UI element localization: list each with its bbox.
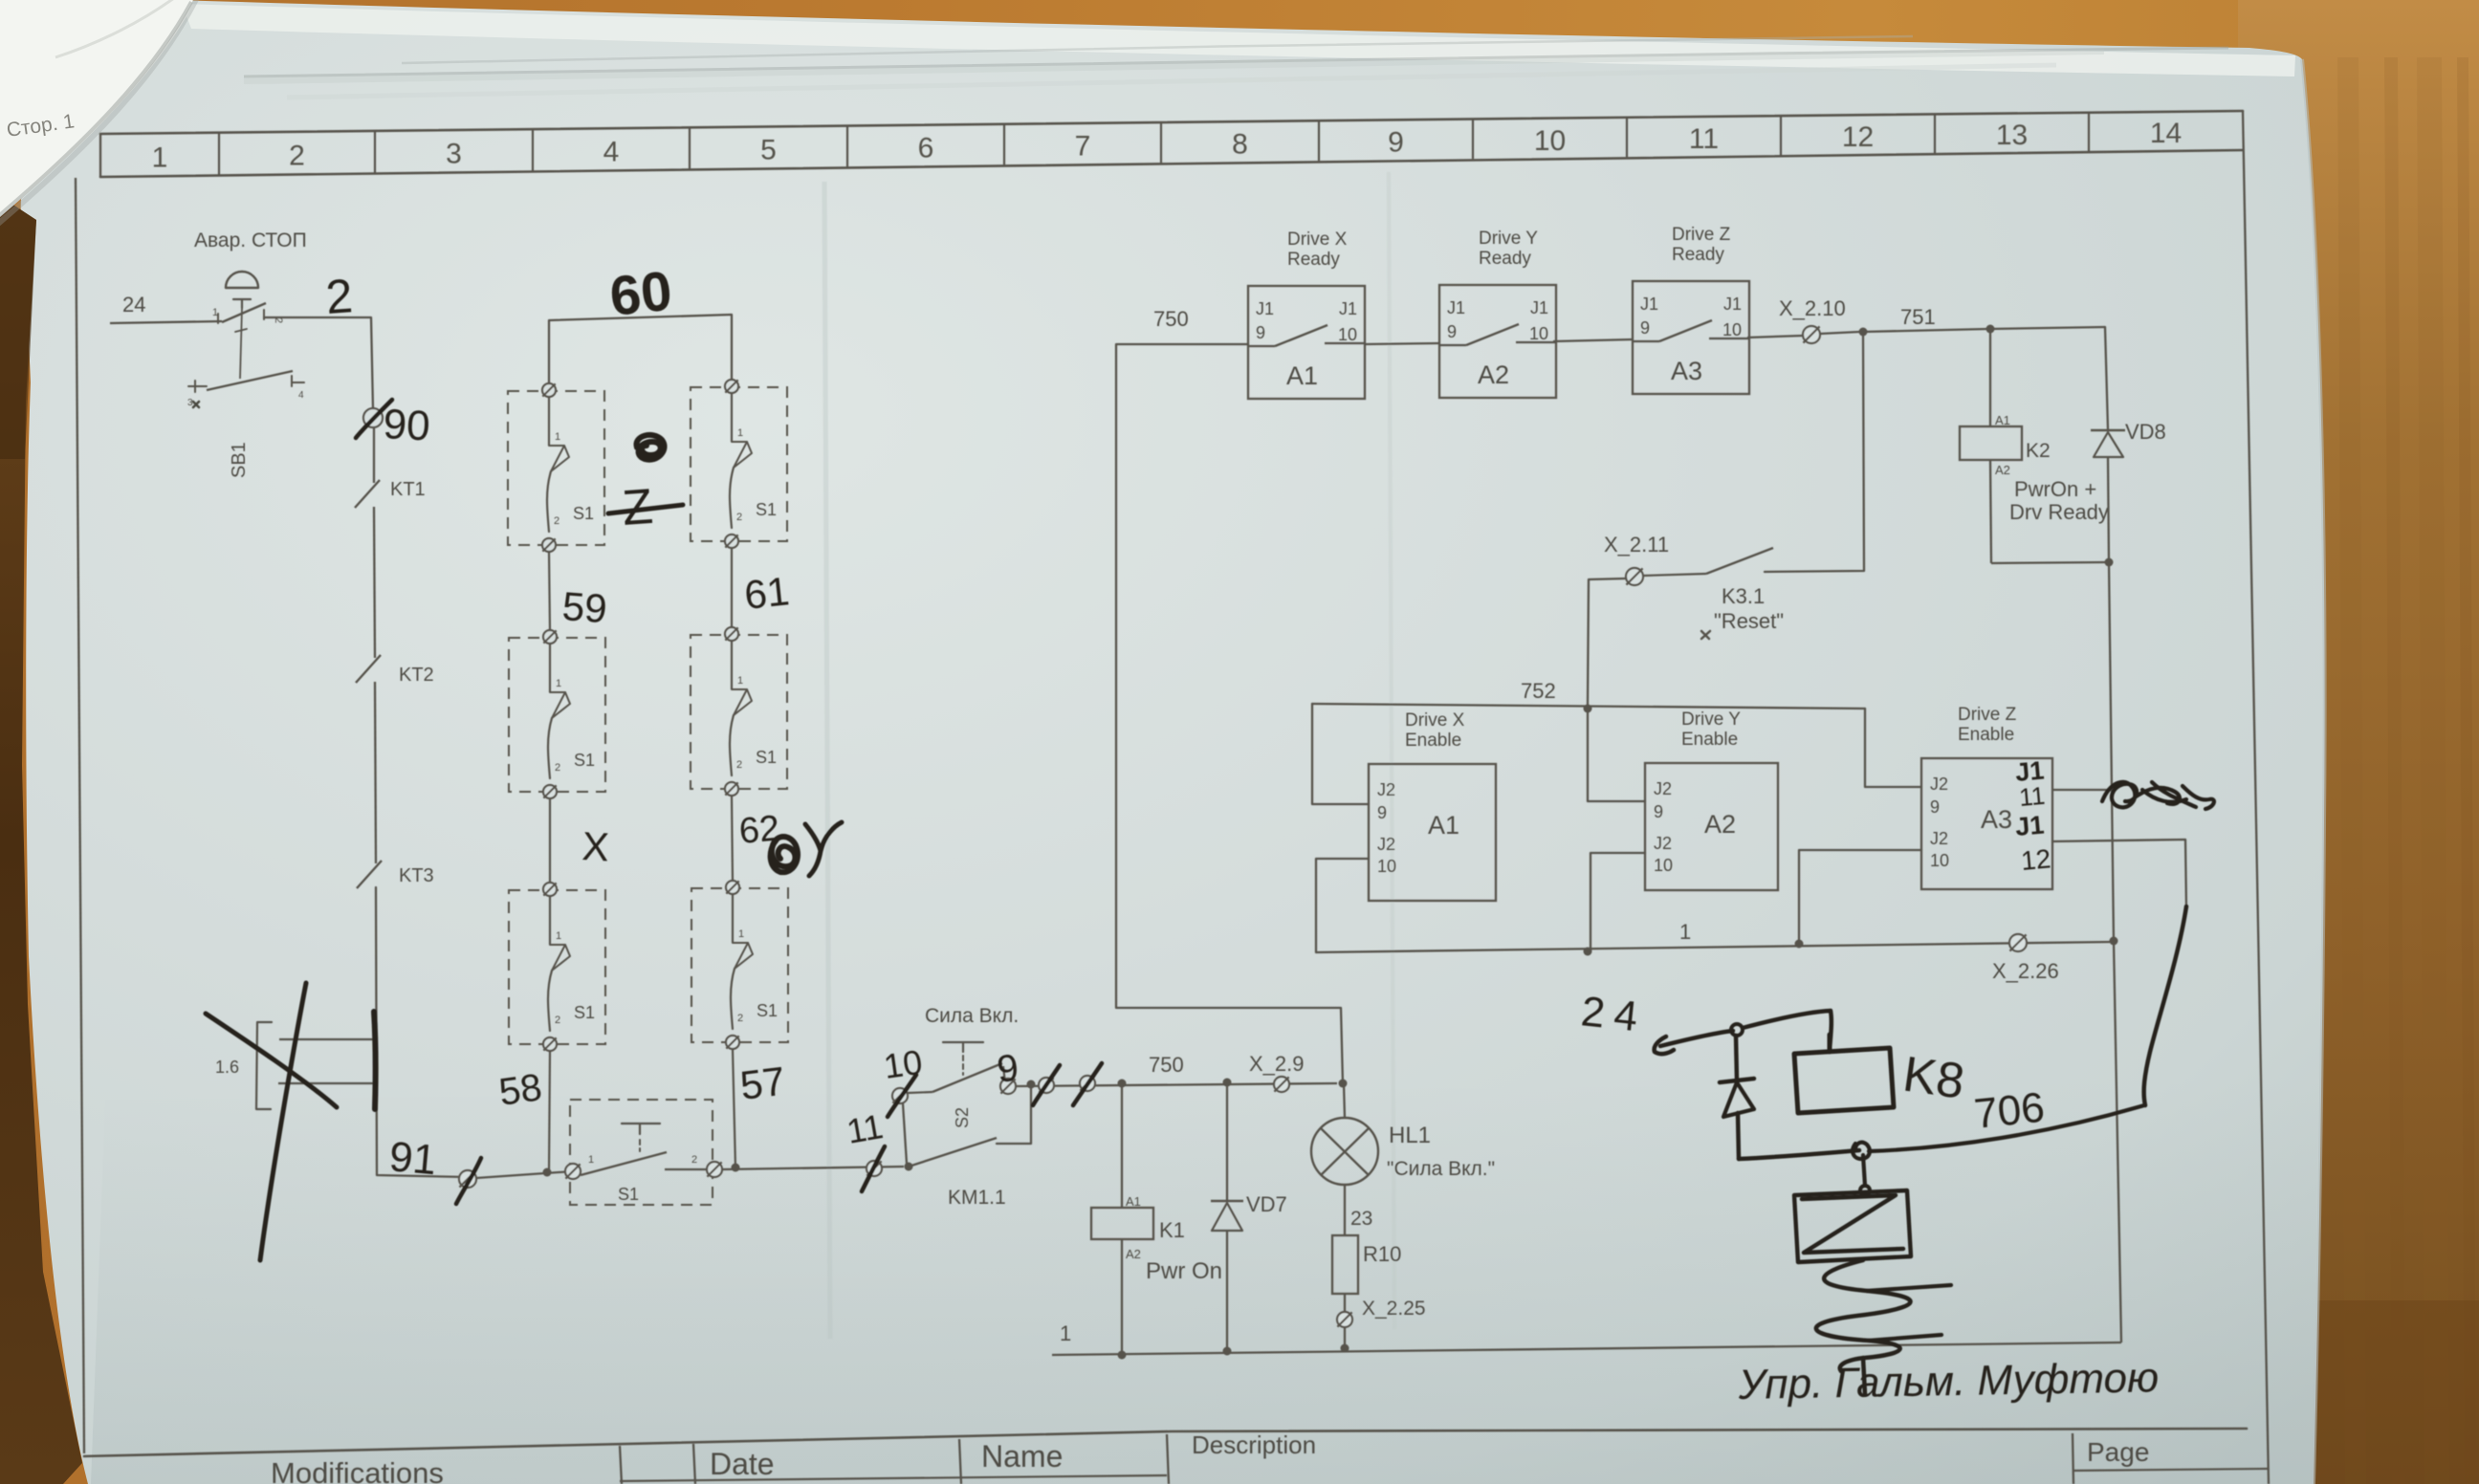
svg-text:J2: J2 <box>1377 835 1395 854</box>
wire KT2-KT3 <box>375 682 376 863</box>
drawing frame left border <box>76 178 84 1453</box>
svg-text:Enable: Enable <box>1681 730 1738 750</box>
node 23 <box>1344 1185 1346 1235</box>
hand slashed terminal b <box>1080 1076 1095 1091</box>
svg-text:Drive X: Drive X <box>1287 229 1348 250</box>
svg-text:1: 1 <box>556 930 561 942</box>
svg-text:9: 9 <box>1930 797 1940 817</box>
svg-text:Description: Description <box>1192 1430 1316 1459</box>
wire 751 <box>1863 329 1987 332</box>
terminal top (X-axis mid) <box>543 630 557 644</box>
header band bottom line <box>100 150 2243 177</box>
wire A1-A2 <box>1365 343 1439 344</box>
drive ready block A1 <box>1248 286 1365 399</box>
terminal bottom (X-axis mid) <box>543 785 557 798</box>
connector 1.6 <box>256 1022 272 1109</box>
header divider x=2184 <box>2088 114 2090 152</box>
wire 57 down <box>733 1049 735 1168</box>
hand slashed terminal a <box>1039 1078 1054 1093</box>
K2 branch down <box>1989 329 1991 426</box>
contact blade (top right) <box>731 393 733 442</box>
svg-text:23: 23 <box>1350 1208 1372 1230</box>
svg-text:1: 1 <box>212 307 218 318</box>
svg-text:10: 10 <box>1529 324 1548 343</box>
svg-text:10: 10 <box>881 1042 924 1086</box>
drawing frame right border <box>2243 111 2269 1484</box>
A2 enable J2-10 stub <box>1591 853 1645 951</box>
contact blade (X-axis mid) <box>549 644 551 692</box>
svg-text:J1: J1 <box>1723 295 1742 314</box>
wire node 2 to corner <box>264 317 373 409</box>
svg-text:61: 61 <box>742 568 791 618</box>
svg-text:11: 11 <box>844 1106 886 1151</box>
terminal below node 2 (hand slashed) <box>363 408 383 427</box>
second row line <box>620 1475 1167 1481</box>
svg-text:A3: A3 <box>1671 357 1702 385</box>
terminal X_2.9 <box>1274 1077 1289 1092</box>
svg-text:J1: J1 <box>2014 810 2046 841</box>
svg-text:4: 4 <box>298 390 304 401</box>
svg-text:X: X <box>581 823 610 869</box>
svg-text:J1: J1 <box>1447 298 1465 317</box>
svg-text:A1: A1 <box>1995 413 2010 427</box>
Page underline <box>2073 1469 2268 1471</box>
svg-text:13: 13 <box>1996 120 2028 151</box>
hand bottom wire 706 <box>1739 1150 1859 1159</box>
faint print bands <box>824 182 830 1339</box>
drive enable block A2 <box>1645 763 1778 890</box>
wire to KT1 <box>373 427 375 483</box>
Page box divider <box>2073 1433 2073 1484</box>
K2 lead down <box>1990 460 1991 563</box>
S1 bridge blade <box>581 1152 667 1175</box>
svg-text:60: 60 <box>607 260 675 328</box>
contact KT2 <box>356 655 381 683</box>
header divider x=1050 <box>1003 125 1005 165</box>
svg-text:Сила Вкл.: Сила Вкл. <box>925 1005 1019 1027</box>
svg-text:9: 9 <box>1654 802 1663 821</box>
svg-text:9: 9 <box>1256 323 1265 342</box>
svg-text:S1: S1 <box>573 504 594 523</box>
left wood sliver <box>0 196 82 1484</box>
terminal X_2.10 <box>1803 326 1820 343</box>
header divider x=1701 <box>1626 119 1628 157</box>
contact K3.1 <box>1643 574 1706 576</box>
A1 enable J2-9 stub <box>1312 704 1369 804</box>
svg-text:Авар. СТОП: Авар. СТОП <box>194 229 307 251</box>
svg-text:10: 10 <box>1930 851 1949 870</box>
title block divider a <box>620 1446 622 1484</box>
hand diode <box>1736 1036 1737 1080</box>
svg-text:J1: J1 <box>1640 295 1658 314</box>
svg-text:58: 58 <box>496 1066 544 1114</box>
svg-text:VD8: VD8 <box>2125 420 2166 444</box>
pushbutton SB1 mushroom head <box>226 272 258 288</box>
relay coil K2 <box>1960 426 2022 460</box>
junction K1 <box>1118 1080 1127 1088</box>
wire 59 <box>549 552 550 630</box>
header divider x=392 <box>374 132 376 173</box>
header band top line <box>100 111 2243 134</box>
svg-text:SB1: SB1 <box>229 442 250 478</box>
svg-text:S1: S1 <box>757 1001 778 1020</box>
svg-text:9: 9 <box>1640 318 1650 338</box>
svg-text:2: 2 <box>555 762 560 774</box>
svg-text:750: 750 <box>1153 307 1189 331</box>
hand cross-out X over 1.6 <box>260 983 306 1260</box>
svg-text:57: 57 <box>737 1058 787 1108</box>
svg-text:Ready: Ready <box>1672 245 1724 265</box>
terminal hand slashed on bottom wire <box>459 1170 476 1188</box>
header divider x=557 <box>532 130 534 170</box>
contact blade (bottom left) <box>549 896 551 945</box>
wire KT3 down to bottom corner <box>376 887 468 1177</box>
A2 enable J2-9 stub <box>1588 709 1645 801</box>
svg-text:1: 1 <box>588 1154 594 1166</box>
svg-text:24: 24 <box>1579 988 1650 1041</box>
svg-text:2: 2 <box>555 1015 560 1026</box>
diode VD7 <box>1226 1082 1228 1201</box>
svg-text:J2: J2 <box>1377 780 1395 799</box>
svg-text:2: 2 <box>736 512 742 523</box>
A1 enable J2-10 stub <box>1316 859 1369 952</box>
wire 750 bottom <box>1016 1083 1337 1086</box>
pen stroke over rail <box>374 1012 376 1109</box>
stray pen tick <box>193 402 199 407</box>
hand wire from 24 with arrow <box>1655 1037 1674 1054</box>
contact KT1 <box>355 480 380 508</box>
hand wavy drop from J1-12 <box>2144 906 2186 1105</box>
svg-text:9: 9 <box>1377 803 1387 822</box>
svg-text:KT2: KT2 <box>399 665 434 686</box>
svg-text:Drive Y: Drive Y <box>1479 229 1538 249</box>
X_2.11 wire to 752 <box>1588 578 1626 705</box>
lamp HL1 <box>1344 1083 1345 1118</box>
svg-text:9: 9 <box>1447 322 1457 341</box>
svg-text:90: 90 <box>382 401 430 449</box>
S1 bridge actuator <box>622 1124 660 1134</box>
terminal top (Z-axis top) <box>542 383 556 397</box>
svg-text:S1: S1 <box>618 1185 639 1204</box>
svg-text:1.6: 1.6 <box>215 1058 239 1077</box>
svg-text:A1: A1 <box>1428 811 1459 840</box>
terminal top (bottom left) <box>543 883 557 896</box>
svg-text:Enable: Enable <box>1958 725 2014 745</box>
svg-text:K2: K2 <box>2026 440 2051 462</box>
S1 bridge dashed box <box>570 1100 713 1205</box>
svg-text:10: 10 <box>1338 325 1357 344</box>
terminal top (top right) <box>725 380 738 393</box>
A3 J1-12 pin <box>2052 840 2186 908</box>
svg-text:K3.1: K3.1 <box>1722 584 1765 608</box>
svg-text:752: 752 <box>1521 679 1556 703</box>
header divider x=1379 <box>1318 121 1320 161</box>
A3 J1-11 pin <box>2052 789 2113 791</box>
svg-text:11: 11 <box>2018 781 2047 812</box>
svg-text:6: 6 <box>918 133 934 164</box>
wire to 751 junction <box>1820 332 1859 334</box>
svg-text:Drv Ready: Drv Ready <box>2009 500 2109 524</box>
S2 left terminal (hand slashed) <box>892 1088 908 1103</box>
wire X <box>549 798 551 883</box>
wire 61 <box>731 548 733 627</box>
svg-text:9: 9 <box>1388 127 1404 159</box>
terminal 11 (hand slashed) <box>867 1161 882 1176</box>
svg-text:A2: A2 <box>1126 1247 1141 1261</box>
svg-text:10: 10 <box>1534 125 1566 157</box>
title block divider c (Date|Name) <box>959 1439 961 1484</box>
limit switch S1 (bottom left) dashed box <box>509 890 605 1044</box>
SB1 contact 2 <box>188 381 207 392</box>
terminal top (Y-axis mid) <box>725 627 738 641</box>
S2 actuator <box>943 1042 983 1052</box>
svg-text:1: 1 <box>737 675 743 687</box>
svg-text:10: 10 <box>1654 856 1673 875</box>
header divider x=886 <box>846 127 848 167</box>
handwritten scribble blob <box>636 435 664 460</box>
wire 24 input <box>110 321 222 323</box>
bottom link K2-VD8 <box>1991 562 2109 563</box>
svg-text:KT1: KT1 <box>390 479 426 500</box>
svg-text:"Сила Вкл.": "Сила Вкл." <box>1387 1158 1495 1180</box>
limit switch S1 (Z-axis top) dashed box <box>508 391 604 545</box>
svg-text:KM1.1: KM1.1 <box>948 1187 1006 1209</box>
contact blade (bottom right) <box>732 894 734 943</box>
junction HL1 corner <box>1339 1080 1348 1088</box>
svg-text:7: 7 <box>1075 131 1091 163</box>
wire A3 to X_2.10 <box>1747 336 1803 338</box>
svg-text:9: 9 <box>995 1047 1020 1091</box>
svg-text:Ready: Ready <box>1479 249 1531 269</box>
terminal X_2.26 <box>2009 934 2027 951</box>
S1 bridge terminal 1 <box>565 1164 581 1179</box>
svg-text:J2: J2 <box>1930 775 1948 794</box>
header divider x=1862 <box>1780 117 1782 155</box>
svg-text:Page: Page <box>2087 1437 2149 1467</box>
A3 enable J2-10 stub <box>1799 850 1921 944</box>
svg-text:11: 11 <box>1689 123 1719 155</box>
enable return wire node 1 <box>1316 942 2114 952</box>
SB1 actuator link <box>240 308 242 379</box>
svg-text:J2: J2 <box>1654 779 1672 798</box>
contact KT3 <box>357 861 382 888</box>
svg-text:X_2.10: X_2.10 <box>1779 296 1846 320</box>
svg-text:Pwr On: Pwr On <box>1146 1258 1222 1284</box>
svg-text:10: 10 <box>1722 320 1742 339</box>
svg-text:1: 1 <box>1060 1321 1071 1345</box>
svg-text:Упр. Гальм. Муфтою: Упр. Гальм. Муфтою <box>1737 1354 2159 1408</box>
svg-text:2: 2 <box>737 1013 743 1024</box>
crease shadow lines <box>244 48 2228 76</box>
svg-text:10: 10 <box>1377 857 1396 876</box>
hand solenoid (clutch) <box>1863 1155 1865 1186</box>
hand relay coil K8 <box>1794 1035 1894 1113</box>
svg-text:J2: J2 <box>1654 834 1672 853</box>
svg-text:Name: Name <box>981 1439 1063 1473</box>
terminal bottom (bottom right) <box>726 1036 739 1049</box>
svg-text:Enable: Enable <box>1405 731 1461 751</box>
svg-text:Drive Z: Drive Z <box>1672 225 1731 245</box>
svg-text:24: 24 <box>122 293 145 316</box>
diode VD8 <box>2105 327 2108 429</box>
svg-text:S2: S2 <box>953 1107 972 1128</box>
drive ready block A3 <box>1633 281 1749 394</box>
svg-text:1: 1 <box>737 427 743 439</box>
svg-text:VD7: VD7 <box>1246 1192 1287 1216</box>
junction right chain / bottom wire <box>732 1164 740 1172</box>
svg-text:1: 1 <box>555 431 560 443</box>
title block top line <box>84 1429 2247 1456</box>
svg-text:J2: J2 <box>1930 829 1948 848</box>
drive ready block A2 <box>1439 285 1556 398</box>
terminal bottom (top right) <box>725 535 738 548</box>
svg-text:A2: A2 <box>1995 463 2010 477</box>
svg-text:Drive Z: Drive Z <box>1958 705 2017 725</box>
limit switch S1 (Y-axis mid) dashed box <box>691 635 787 789</box>
KM1.1 right lead <box>997 1087 1031 1144</box>
header divider x=1540 <box>1472 120 1474 159</box>
junction VD7 <box>1223 1079 1232 1087</box>
resistor R10 <box>1332 1235 1358 1294</box>
svg-text:X_2.9: X_2.9 <box>1249 1052 1305 1076</box>
svg-text:K1: K1 <box>1159 1218 1185 1242</box>
header divider x=229 <box>218 134 220 175</box>
svg-text:PwrOn +: PwrOn + <box>2014 477 2096 501</box>
svg-text:A2: A2 <box>1704 810 1736 839</box>
header band left edge <box>99 134 101 177</box>
wire 62 <box>732 796 733 881</box>
svg-text:J1: J1 <box>1256 299 1274 318</box>
svg-text:S1: S1 <box>574 751 595 770</box>
drive enable block A1 <box>1369 764 1496 901</box>
K1 coil <box>1091 1208 1153 1239</box>
handwritten Y <box>805 822 842 876</box>
svg-text:706: 706 <box>1972 1084 2047 1138</box>
SB1 contact 1 (NC) <box>217 314 219 323</box>
svg-text:"Reset": "Reset" <box>1714 609 1784 633</box>
right rail to bottom rail <box>2114 941 2121 1342</box>
wire A2-A3 <box>1553 339 1633 341</box>
terminal top (bottom right) <box>726 881 739 894</box>
svg-text:2: 2 <box>736 759 742 771</box>
A3 enable J2-9 stub <box>1865 709 1921 787</box>
svg-text:2: 2 <box>554 515 559 527</box>
right rail down to enable return <box>2109 562 2114 941</box>
svg-text:S1: S1 <box>756 748 777 767</box>
svg-text:Date: Date <box>710 1447 775 1481</box>
under-sheet corner top-left <box>0 0 194 220</box>
terminal bottom (bottom left) <box>543 1037 557 1051</box>
svg-text:K8: K8 <box>1899 1046 1967 1109</box>
K1 lead to rail <box>1121 1239 1123 1355</box>
svg-text:3: 3 <box>446 139 462 170</box>
svg-text:J1: J1 <box>1339 299 1357 318</box>
title block divider d (Name|Description) <box>1167 1434 1169 1484</box>
svg-text:A2: A2 <box>1478 360 1509 389</box>
svg-text:X_2.25: X_2.25 <box>1362 1298 1426 1320</box>
drive enable block A3 <box>1921 758 2052 889</box>
limit switch S1 (top right) dashed box <box>691 387 787 541</box>
svg-text:2: 2 <box>324 269 355 324</box>
svg-text:5: 5 <box>760 135 777 166</box>
limit switch S1 (bottom right) dashed box <box>691 888 788 1042</box>
svg-text:1: 1 <box>738 928 744 940</box>
svg-text:12: 12 <box>2020 843 2052 876</box>
terminal X_2.25 <box>1344 1294 1346 1312</box>
svg-text:Ready: Ready <box>1287 250 1340 270</box>
KM1.1 blade <box>909 1138 997 1167</box>
svg-text:Drive X: Drive X <box>1405 710 1465 731</box>
S1 bridge terminal 2 <box>707 1162 722 1177</box>
contact blade (Y-axis mid) <box>731 641 733 689</box>
wire 58 down <box>549 1051 550 1171</box>
S2 right contact tick <box>1003 1066 1005 1083</box>
net 60 loop <box>549 315 732 382</box>
svg-text:S1: S1 <box>756 500 777 519</box>
svg-text:59: 59 <box>560 583 608 631</box>
S1 bridge right lead <box>665 1168 707 1170</box>
svg-text:2: 2 <box>691 1154 697 1166</box>
svg-text:S1: S1 <box>574 1003 595 1022</box>
K1 coil lead <box>1121 1083 1123 1208</box>
limit switch S1 (X-axis mid) dashed box <box>509 638 605 792</box>
contact blade (Z-axis top) <box>548 397 550 446</box>
svg-text:1: 1 <box>152 142 168 173</box>
S2 left leg down <box>903 1103 907 1164</box>
svg-text:A1: A1 <box>1286 361 1318 390</box>
svg-text:Drive Y: Drive Y <box>1681 709 1741 730</box>
header divider x=1214 <box>1160 123 1162 163</box>
svg-text:A1: A1 <box>1126 1194 1141 1209</box>
svg-text:91: 91 <box>387 1133 438 1184</box>
bottom wire to S1 bridge <box>476 1171 573 1178</box>
svg-text:2: 2 <box>289 141 305 172</box>
svg-text:A3: A3 <box>1981 805 2012 834</box>
svg-text:14: 14 <box>2150 118 2182 149</box>
svg-text:8: 8 <box>1232 129 1248 161</box>
title block divider b <box>693 1444 695 1484</box>
wire KT1-KT2 <box>374 507 375 658</box>
hand spring squiggle <box>1816 1260 1911 1371</box>
svg-text:1: 1 <box>556 678 561 689</box>
svg-text:J1: J1 <box>1530 298 1548 317</box>
terminal bottom (Y-axis mid) <box>725 782 738 796</box>
svg-text:R10: R10 <box>1363 1242 1401 1266</box>
svg-text:KT3: KT3 <box>399 865 434 886</box>
svg-text:4: 4 <box>603 137 620 168</box>
handwritten blob over terminal <box>771 837 798 872</box>
KM1.1 junction <box>905 1163 913 1171</box>
header divider x=2023 <box>1934 115 1936 153</box>
header divider x=721 <box>689 128 691 168</box>
svg-text:750: 750 <box>1149 1053 1184 1077</box>
svg-text:Modifications: Modifications <box>271 1456 444 1484</box>
terminal bottom (Z-axis top) <box>542 538 556 552</box>
handwritten 9 over right terminal <box>1000 1079 1016 1094</box>
svg-text:X_2.11: X_2.11 <box>1604 533 1669 556</box>
S2 blade <box>908 1092 932 1093</box>
svg-text:HL1: HL1 <box>1389 1123 1431 1148</box>
bottom wire to KM1.1 <box>722 1167 904 1169</box>
pen scribble over J1-11 wire <box>2102 782 2214 809</box>
svg-text:1: 1 <box>1679 920 1691 944</box>
svg-text:12: 12 <box>1842 121 1874 153</box>
svg-text:751: 751 <box>1900 305 1936 329</box>
svg-text:X_2.26: X_2.26 <box>1992 959 2059 983</box>
